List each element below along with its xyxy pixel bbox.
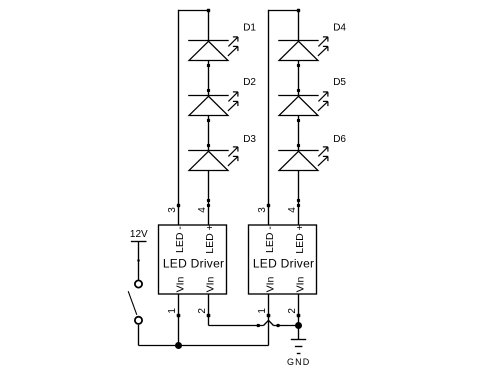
- svg-text:D4: D4: [333, 23, 346, 34]
- svg-text:VIn: VIn: [265, 276, 277, 292]
- svg-text:D3: D3: [243, 134, 256, 145]
- svg-text:VIn: VIn: [295, 276, 307, 292]
- svg-text:D1: D1: [243, 23, 256, 34]
- svg-text:VIn: VIn: [205, 276, 217, 292]
- svg-text:3: 3: [257, 207, 268, 213]
- svg-text:1: 1: [257, 308, 268, 314]
- svg-text:LED +: LED +: [204, 224, 216, 253]
- svg-text:2: 2: [287, 308, 298, 314]
- svg-text:VIn: VIn: [175, 276, 187, 292]
- svg-text:2: 2: [197, 308, 208, 314]
- svg-text:4: 4: [287, 207, 298, 213]
- svg-text:LED +: LED +: [294, 224, 306, 253]
- svg-text:1: 1: [167, 308, 178, 314]
- svg-text:LED -: LED -: [264, 226, 276, 253]
- svg-text:GND: GND: [287, 357, 310, 367]
- svg-text:LED Driver: LED Driver: [253, 257, 314, 271]
- svg-text:4: 4: [197, 207, 208, 213]
- svg-text:LED Driver: LED Driver: [163, 257, 224, 271]
- svg-text:D2: D2: [243, 77, 256, 88]
- svg-text:D6: D6: [333, 134, 346, 145]
- svg-text:D5: D5: [333, 77, 346, 88]
- svg-text:12V: 12V: [130, 229, 148, 240]
- svg-text:3: 3: [167, 207, 178, 213]
- svg-text:LED -: LED -: [174, 226, 186, 253]
